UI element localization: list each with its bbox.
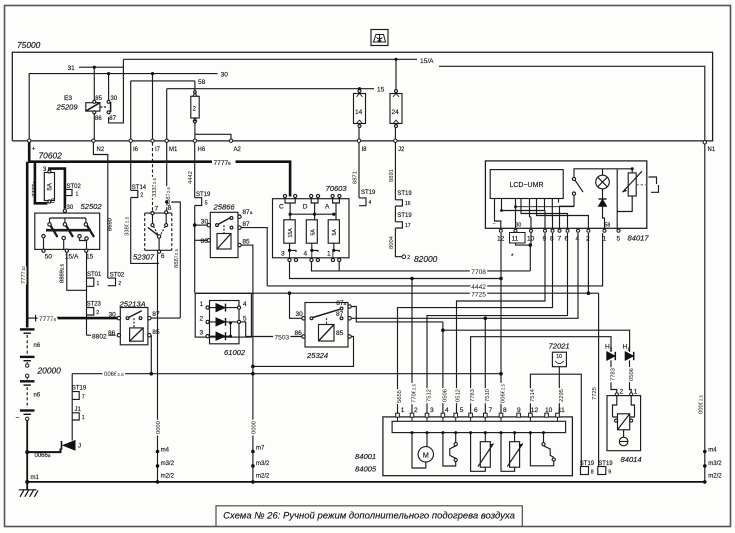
wire 25866-87 to 4442 line	[241, 228, 267, 286]
svg-text:87a: 87a	[242, 209, 252, 216]
svg-text:2: 2	[118, 281, 121, 287]
svg-text:30: 30	[296, 311, 304, 318]
m2/2 node	[156, 480, 160, 484]
svg-text:I6: I6	[133, 147, 139, 153]
connector ST02-2 (N2 wire)	[108, 278, 116, 286]
svg-text:3: 3	[430, 407, 434, 414]
svg-text:9: 9	[543, 236, 547, 243]
diode H2	[607, 352, 616, 360]
svg-text:J1: J1	[75, 407, 82, 413]
wire 82000 terminal from J2	[395, 143, 401, 257]
svg-text:ST01: ST01	[87, 272, 102, 278]
wire 15/A to fuse24	[395, 59, 397, 90]
battery cell 2	[20, 357, 35, 361]
svg-text:8004: 8004	[389, 235, 395, 249]
switch 2 in connector	[530, 433, 555, 466]
svg-text:30: 30	[111, 96, 118, 102]
84017 rheostat	[617, 169, 648, 229]
svg-text:87: 87	[336, 311, 344, 318]
svg-text:ST14: ST14	[132, 185, 147, 191]
ground symbol hatching	[19, 490, 38, 497]
84017 diode	[599, 199, 607, 206]
svg-text:7783: 7783	[470, 389, 476, 402]
svg-text:m3/2: m3/2	[161, 461, 175, 467]
battery minus terminal	[26, 417, 29, 420]
wire E3 30	[108, 74, 110, 101]
svg-text:5: 5	[243, 315, 247, 322]
svg-text:8: 8	[591, 469, 594, 475]
svg-text:11: 11	[512, 236, 519, 243]
svg-text:4442: 4442	[188, 171, 194, 184]
pin stubs into strip	[398, 417, 558, 421]
svg-text:1: 1	[603, 236, 607, 243]
svg-text:7503: 7503	[275, 335, 290, 342]
svg-text:C: C	[279, 204, 284, 211]
terminal 82000	[402, 255, 406, 259]
svg-text:A2: A2	[234, 147, 242, 153]
svg-text:25324: 25324	[306, 351, 328, 360]
right edge N1 wire down	[704, 144, 706, 482]
svg-text:m2/2: m2/2	[708, 473, 722, 479]
wire fuse14 top	[359, 89, 361, 91]
m4 node	[156, 450, 160, 454]
battery minus wire down to ground	[26, 421, 28, 490]
node pins 10 11 join	[529, 243, 533, 247]
wire 70603-4 7708	[312, 262, 531, 271]
symbol icon box (car hoist)	[371, 30, 388, 46]
61002 diode 1	[216, 304, 226, 312]
svg-text:4: 4	[304, 251, 308, 258]
svg-text:0000: 0000	[156, 421, 162, 434]
svg-text:16: 16	[405, 201, 411, 207]
84017 switch	[560, 177, 584, 229]
connector ST19-9	[598, 467, 606, 475]
motor M in connector	[412, 433, 433, 468]
svg-text:0000: 0000	[252, 421, 258, 434]
box around pin 11	[510, 233, 526, 244]
wire 31	[79, 66, 123, 68]
svg-text:0506: 0506	[629, 368, 635, 381]
wire 30	[29, 74, 217, 141]
svg-text:75000: 75000	[17, 40, 41, 50]
svg-text:4: 4	[369, 200, 372, 206]
84017 lamp	[596, 175, 610, 199]
svg-text:m3/2: m3/2	[708, 461, 722, 467]
connector ST14-2 (I6 wire)	[131, 190, 138, 197]
svg-text:C: C	[51, 199, 56, 205]
svg-text:2: 2	[96, 310, 99, 316]
wire 0506 line to H1	[443, 330, 630, 352]
svg-text:1: 1	[327, 251, 331, 258]
svg-text:87: 87	[152, 311, 160, 318]
node 0506 junction	[441, 328, 445, 332]
connector strip dots	[411, 431, 546, 434]
connector ST02-1	[65, 189, 72, 195]
connector J1-1	[72, 413, 79, 420]
wire 58 horizontal	[131, 81, 195, 93]
connector ST19-4	[359, 198, 366, 206]
svg-text:14: 14	[355, 109, 363, 116]
svg-text:1: 1	[76, 192, 79, 198]
84014 pin circles	[615, 393, 633, 396]
node rheostat top	[631, 167, 634, 170]
svg-text:m2/2: m2/2	[256, 473, 270, 479]
svg-text:4: 4	[445, 407, 449, 414]
wire N2 jog down	[93, 142, 107, 279]
variable resistor 2 in connector	[501, 433, 523, 472]
node m1 on ground bus	[25, 480, 29, 484]
svg-text:D: D	[303, 204, 308, 211]
box 75000 outline	[12, 52, 712, 141]
bottom connector inner strip	[392, 421, 565, 432]
svg-text:H6: H6	[198, 147, 206, 153]
node M1 junction	[165, 200, 168, 203]
connector pin squares	[396, 413, 560, 417]
switch 52307	[145, 211, 172, 254]
wire 0066-2.5 horizontal	[72, 373, 501, 375]
svg-text:86: 86	[295, 330, 303, 337]
svg-text:ST02: ST02	[67, 184, 82, 190]
svg-text:ST19: ST19	[580, 461, 595, 467]
fuse 5A 70602/3	[44, 170, 54, 203]
relay E3 coil	[86, 103, 100, 111]
svg-text:7512: 7512	[427, 389, 433, 402]
fusebox 70603	[273, 194, 350, 261]
svg-text:Схема № 26: Ручной режим допол: Схема № 26: Ручной режим дополнительного…	[223, 511, 515, 522]
svg-text:4442: 4442	[471, 284, 486, 291]
m7 node	[251, 450, 255, 454]
m3/2 node	[156, 464, 160, 468]
svg-text:ST19: ST19	[361, 190, 376, 196]
battery dashed link	[26, 335, 28, 355]
caption box	[216, 506, 522, 526]
wire 15/A vertical to E3 contact	[109, 59, 124, 123]
battery cell 3	[20, 381, 35, 385]
mechanical link bar	[46, 229, 91, 232]
svg-text:ST19: ST19	[72, 386, 87, 392]
svg-text:2: 2	[414, 407, 418, 414]
connector ST19-16	[395, 200, 402, 206]
svg-text:ST19: ST19	[397, 213, 412, 219]
svg-text:I7: I7	[155, 147, 161, 153]
node 25866-30 junction	[193, 223, 197, 227]
svg-text:8: 8	[503, 407, 507, 414]
svg-text:I8: I8	[362, 147, 368, 153]
svg-text:8650: 8650	[108, 218, 114, 231]
wire to 25866-86	[195, 239, 208, 241]
connector ST19-8	[581, 467, 589, 475]
wire 15 horizontal	[167, 89, 374, 141]
svg-text:72021: 72021	[549, 342, 570, 351]
wire 61002-5 to 7503	[241, 322, 302, 337]
svg-text:30: 30	[67, 205, 74, 211]
svg-text:8802: 8802	[92, 333, 107, 340]
svg-text:30: 30	[201, 219, 209, 226]
svg-text:24: 24	[392, 109, 400, 116]
riser 0066 pin12 to pin8	[500, 233, 502, 414]
bottom connector 84001 outer box	[383, 417, 573, 476]
svg-text:7510: 7510	[485, 389, 491, 402]
svg-text:J: J	[78, 444, 81, 450]
svg-text:86: 86	[108, 330, 116, 337]
svg-text:m3/2: m3/2	[256, 461, 270, 467]
svg-text:5A: 5A	[310, 229, 316, 236]
svg-text:15: 15	[86, 254, 94, 261]
svg-text:86: 86	[201, 238, 209, 245]
terminal circles on box bottom	[28, 139, 707, 144]
node 0066/85 junction	[499, 372, 503, 376]
diode J	[62, 441, 76, 450]
thick fuse 5A bracket	[35, 162, 65, 209]
svg-text:m1: m1	[31, 475, 40, 481]
svg-text:85: 85	[152, 329, 160, 336]
svg-text:7514: 7514	[530, 388, 536, 402]
terminal circles 20000	[26, 362, 29, 380]
svg-text:10: 10	[545, 407, 553, 414]
wire fuse24 bottom to J2	[394, 127, 396, 141]
svg-text:84005: 84005	[355, 465, 377, 474]
svg-text:86: 86	[95, 116, 102, 122]
wire 7725 horizontal	[195, 233, 599, 467]
svg-text:7725: 7725	[471, 292, 486, 299]
svg-text:1: 1	[401, 407, 405, 414]
battery dashed link 2	[26, 387, 28, 408]
ground bus m	[27, 481, 705, 483]
61002 diode 2	[216, 318, 226, 326]
switch blades (thick)	[51, 226, 95, 238]
svg-text:1: 1	[82, 415, 85, 421]
svg-text:N1: N1	[708, 147, 716, 153]
wire 72021 fanout	[530, 367, 581, 467]
LCD-UMR box	[490, 170, 563, 199]
svg-text:8: 8	[168, 205, 172, 212]
svg-text:52307: 52307	[133, 253, 155, 262]
wire 25213A-85 down right to 0066 drop	[150, 336, 152, 374]
wire 25866-85 to ground drop	[241, 245, 253, 482]
fuse 14	[354, 90, 366, 128]
svg-text:84001: 84001	[355, 452, 376, 461]
svg-text:8: 8	[550, 236, 554, 243]
wire 70603-3 down right	[290, 262, 502, 279]
battery cell 1	[20, 329, 35, 333]
m2/2 node right edge	[703, 480, 707, 484]
svg-text:ST23: ST23	[87, 302, 102, 308]
svg-text:85: 85	[242, 239, 250, 246]
svg-text:6: 6	[474, 407, 478, 414]
thermal switch 72021	[552, 352, 566, 367]
wire fuse2 to H6 and A2	[195, 122, 231, 141]
svg-text:77776: 77776	[214, 160, 232, 167]
wire H6 4442 down	[194, 143, 196, 293]
svg-text:8891: 8891	[389, 169, 395, 182]
svg-text:−: −	[493, 222, 496, 228]
wire 25324-30 from 7725 dot	[290, 293, 302, 318]
wires H2 H1 down to 84014	[611, 360, 631, 393]
diode block 61002	[195, 293, 251, 343]
wire 4442 horizontal	[267, 233, 602, 286]
wire 25324-87a to H1	[351, 307, 443, 322]
relay 25324	[302, 303, 352, 348]
wire 25324-85 down to ground drop	[253, 337, 354, 367]
svg-text:84017: 84017	[628, 234, 650, 243]
switch 52502	[35, 209, 100, 252]
svg-text:5: 5	[460, 407, 464, 414]
61002 junction dots	[229, 321, 232, 337]
wire J up through J1 ST19	[71, 374, 73, 441]
svg-text:30: 30	[516, 223, 522, 229]
svg-text:25866: 25866	[213, 203, 236, 212]
svg-text:7725: 7725	[592, 387, 598, 400]
svg-text:30: 30	[109, 311, 117, 318]
svg-text:70602: 70602	[39, 151, 63, 161]
svg-text:7: 7	[82, 394, 85, 400]
m3/2 node right	[251, 464, 255, 468]
svg-text:ST02: ST02	[110, 272, 125, 278]
svg-text:m4: m4	[161, 447, 170, 453]
svg-text:17: 17	[405, 223, 411, 229]
thick battery feed vertical	[26, 162, 29, 328]
svg-text:61002: 61002	[224, 348, 246, 357]
svg-text:15/A: 15/A	[420, 58, 434, 65]
wire M1 8887 down	[167, 143, 181, 318]
node dots top box	[93, 58, 398, 91]
svg-text:n6: n6	[34, 343, 41, 349]
84017 internal LCD wires	[495, 199, 589, 230]
svg-text:7: 7	[558, 236, 562, 243]
m2/2 node right	[251, 480, 255, 484]
svg-text:N2: N2	[97, 147, 105, 153]
svg-text:30: 30	[221, 72, 229, 79]
svg-text:9: 9	[517, 407, 521, 414]
unit 84017 outer box	[485, 161, 646, 228]
connector ST01-1	[87, 278, 94, 286]
relay 25866	[207, 212, 241, 257]
svg-text:52502: 52502	[81, 202, 103, 211]
node 7510 junction	[484, 317, 488, 321]
wire 15 down through ST01 ST23 to 8802	[87, 252, 116, 335]
svg-text:85: 85	[95, 96, 102, 102]
84017 internal dots	[500, 205, 517, 212]
svg-text:7783: 7783	[611, 368, 617, 381]
riser 7510 from 87 line to pin7	[484, 318, 486, 413]
svg-text:4: 4	[243, 301, 247, 308]
wire 52307-6 / 0000 down to m4	[158, 253, 159, 482]
unit 84014 box	[607, 396, 641, 451]
svg-text:2: 2	[140, 193, 143, 199]
wire I6 58 vertical	[130, 81, 132, 190]
fuse 24	[390, 90, 402, 128]
svg-text:m2/2: m2/2	[161, 473, 175, 479]
diode H1	[625, 352, 634, 360]
svg-text:15A: 15A	[288, 228, 294, 238]
m4 node right	[703, 450, 707, 454]
svg-text:12: 12	[497, 236, 505, 243]
svg-text:LCD−UMR: LCD−UMR	[509, 182, 543, 189]
relay 25213A	[117, 308, 151, 345]
svg-text:2: 2	[620, 389, 624, 396]
svg-text:85: 85	[336, 330, 344, 337]
wire 8889 15/A down	[67, 252, 87, 290]
svg-text:2295: 2295	[559, 389, 565, 402]
bracket symbol right of 84017	[649, 177, 659, 192]
node 0066a	[25, 450, 29, 454]
svg-text:M: M	[423, 452, 429, 459]
svg-text:+: +	[32, 146, 36, 153]
wire N2 from line31 to E3	[93, 67, 95, 101]
svg-text:ST19: ST19	[598, 461, 613, 467]
riser 7706 to pin2	[411, 279, 413, 414]
svg-text:7: 7	[155, 206, 159, 213]
svg-text:m7: m7	[256, 446, 265, 452]
svg-text:4: 4	[576, 236, 580, 243]
wire 84017-6 line to 7512 riser	[427, 233, 568, 414]
svg-text:1: 1	[634, 389, 638, 396]
84017 internal rail	[574, 169, 632, 178]
battery cell 4	[20, 411, 35, 415]
wire 3333 dashed I7 to 52307-7	[152, 143, 154, 213]
svg-text:87: 87	[109, 116, 116, 122]
svg-text:82000: 82000	[414, 254, 438, 264]
svg-text:6: 6	[161, 253, 165, 260]
svg-text:31: 31	[68, 65, 76, 72]
wire 3380 from ST14-2 down	[131, 198, 159, 264]
svg-text:8871: 8871	[353, 171, 359, 184]
svg-text:84014: 84014	[621, 455, 642, 464]
84017 diode to pin1	[603, 206, 605, 229]
svg-text:3: 3	[200, 330, 204, 337]
svg-text:2: 2	[407, 255, 410, 261]
svg-text:2: 2	[586, 236, 590, 243]
svg-text:11: 11	[558, 407, 565, 414]
m3/2 node right edge	[703, 464, 707, 468]
svg-text:50: 50	[45, 254, 53, 261]
svg-text:1: 1	[200, 301, 204, 308]
svg-text:6: 6	[565, 236, 569, 243]
svg-text:5A: 5A	[332, 229, 338, 236]
svg-text:87: 87	[242, 221, 250, 228]
node 85s junction	[251, 365, 255, 369]
svg-text:5655: 5655	[397, 390, 403, 403]
svg-text:m4: m4	[708, 447, 717, 453]
wire 25324-87 to pin7 riser and 84017-4	[351, 233, 578, 318]
svg-text:12: 12	[531, 407, 539, 414]
riser 0506 from 87a line to pin4	[442, 322, 444, 414]
wire 84017 pins 11+10 join to 7708	[516, 232, 532, 271]
svg-text:15: 15	[377, 87, 385, 94]
svg-text:70603: 70603	[326, 184, 348, 193]
node 0066 junctions	[150, 372, 255, 376]
svg-text:n6: n6	[34, 393, 41, 399]
wire 84017-9 line to 0512 riser	[457, 233, 546, 414]
fuse 2	[191, 91, 199, 123]
svg-text:5: 5	[617, 236, 621, 243]
wire I7 from line30	[152, 74, 154, 141]
svg-text:87a: 87a	[336, 300, 346, 307]
wire fuse14 bottom to I8	[358, 127, 360, 141]
svg-text:77776: 77776	[39, 316, 57, 323]
84017 pin circles	[499, 229, 620, 232]
svg-text:7: 7	[489, 407, 493, 414]
svg-text:5A: 5A	[48, 183, 54, 190]
61002 diode 3	[216, 332, 226, 340]
wire 0066a to diode J (thick)	[27, 449, 60, 453]
thick bus 7777-6 lower to 25213A-30	[27, 315, 117, 322]
svg-text:1: 1	[97, 281, 100, 287]
svg-text:ST19: ST19	[397, 191, 412, 197]
svg-text:J2: J2	[398, 147, 405, 153]
wire 25213A-87 to 8887	[151, 317, 180, 319]
svg-text:25209: 25209	[56, 103, 79, 112]
